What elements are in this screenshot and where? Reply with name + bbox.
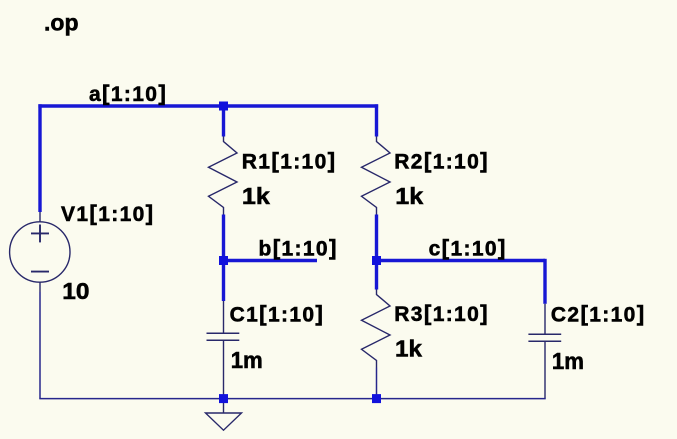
capacitor C1 xyxy=(207,301,240,399)
svg-text:10: 10 xyxy=(62,278,89,304)
svg-text:a[1:10]: a[1:10] xyxy=(89,80,167,106)
junction node b xyxy=(219,256,228,265)
wire net b from R1 bottom xyxy=(222,215,225,261)
junction node c xyxy=(372,256,381,265)
capacitor C2 xyxy=(528,304,561,399)
wire net a top horizontal xyxy=(38,104,378,107)
svg-text:V1[1:10]: V1[1:10] xyxy=(61,201,155,227)
svg-text:C1[1:10]: C1[1:10] xyxy=(230,301,325,327)
wire net b stub right xyxy=(224,259,318,262)
wire net c down to C2 xyxy=(543,259,546,304)
svg-text:1k: 1k xyxy=(395,183,423,209)
wire net c horizontal xyxy=(377,259,546,262)
svg-text:.op: .op xyxy=(44,9,79,35)
resistor R3 xyxy=(362,290,391,368)
svg-text:1m: 1m xyxy=(552,348,584,374)
svg-text:R1[1:10]: R1[1:10] xyxy=(242,148,337,174)
svg-text:b[1:10]: b[1:10] xyxy=(259,235,338,260)
svg-text:c[1:10]: c[1:10] xyxy=(429,235,507,260)
svg-text:1k: 1k xyxy=(242,183,270,209)
svg-text:C2[1:10]: C2[1:10] xyxy=(551,301,646,327)
junction node a xyxy=(219,102,228,111)
ground symbol xyxy=(206,399,242,431)
wire net b down to C1 xyxy=(222,261,225,302)
wire ground net bottom horizontal xyxy=(39,398,545,400)
junction ground at C1 xyxy=(219,394,228,403)
wire ground net below V1 xyxy=(39,292,41,399)
wire net c down to R3 xyxy=(375,261,378,290)
voltage source V1 xyxy=(10,212,70,292)
svg-text:1k: 1k xyxy=(395,336,422,362)
svg-text:R3[1:10]: R3[1:10] xyxy=(394,301,489,327)
wire net a left vertical xyxy=(38,104,41,212)
wire net c from R2 bottom xyxy=(375,215,378,261)
R3 bottom lead xyxy=(376,368,378,399)
svg-text:R2[1:10]: R2[1:10] xyxy=(394,148,489,174)
wire net a down to R2 xyxy=(375,104,378,136)
resistor R2 xyxy=(362,137,391,215)
resistor R1 xyxy=(209,137,238,215)
svg-text:1m: 1m xyxy=(231,347,263,373)
wire net a down to R1 xyxy=(222,106,225,137)
junction ground at R3 xyxy=(372,394,381,403)
